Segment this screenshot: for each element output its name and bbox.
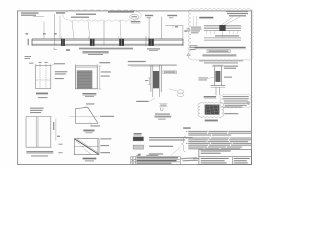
right dim w rotated text bbox=[55, 119, 57, 141]
legend swatch 1 dark bbox=[133, 137, 143, 141]
post cap lines bbox=[213, 64, 224, 66]
right dim line bbox=[99, 66, 101, 89]
detail label bbox=[36, 93, 48, 94]
right cloud outline bbox=[220, 94, 252, 108]
text left of title block bbox=[193, 158, 199, 159]
midline bbox=[74, 145, 99, 147]
hatch ticks below band bbox=[206, 31, 238, 34]
diagonal brace dark bbox=[74, 139, 98, 155]
mid text row bbox=[215, 35, 239, 36]
section 1A label bbox=[204, 96, 216, 97]
lintel det label bbox=[199, 17, 213, 18]
leader texts right bbox=[100, 138, 111, 139]
sheet background bbox=[0, 0, 256, 168]
dark bearing block 1 bbox=[61, 39, 65, 46]
notes heading bbox=[183, 127, 190, 128]
outline bbox=[76, 66, 98, 89]
dim text under beam right bbox=[147, 48, 160, 49]
label below bbox=[83, 158, 97, 159]
dark bearing block 3 bbox=[119, 39, 124, 46]
right cloud text rows bbox=[223, 96, 249, 106]
elevation text +125.7 with leader bbox=[44, 12, 65, 39]
gray louver fill bbox=[77, 70, 93, 88]
weld symbol ellipses bbox=[177, 90, 184, 93]
trapezoid outline bbox=[76, 107, 99, 123]
long underlined title bbox=[195, 47, 246, 48]
leaders from notes to lintel band bbox=[221, 17, 233, 26]
centerline bbox=[69, 116, 99, 118]
beam end caps bbox=[31, 39, 33, 46]
boxed text bbox=[207, 50, 230, 53]
rotated elevation text left of beam bbox=[28, 39, 29, 46]
dim tick text bbox=[224, 77, 232, 78]
dark bearing block 2 bbox=[90, 39, 95, 46]
125.75 label with leader bbox=[145, 15, 153, 16]
triangle A mark bbox=[187, 53, 190, 56]
centered underlined text bbox=[202, 55, 236, 56]
elevation outline bbox=[26, 116, 52, 118]
top-left note text block bbox=[21, 12, 44, 16]
+5 text at beam right end bbox=[184, 30, 187, 32]
legend swatch 2 light bbox=[133, 145, 143, 149]
+127.05 label bbox=[167, 15, 177, 16]
dashed internals bbox=[36, 66, 51, 89]
+2 typ leader text bbox=[86, 103, 94, 104]
note item numbers bbox=[186, 131, 187, 144]
leader and right texts bbox=[51, 64, 54, 65]
left post leader text bbox=[199, 77, 209, 78]
+5'-0" text bbox=[99, 62, 110, 63]
right elevation text rows bbox=[187, 28, 198, 50]
anchor hook bbox=[160, 107, 163, 110]
beam main horizontal lines bbox=[32, 39, 183, 44]
top-right notes (3 rows) bbox=[226, 11, 248, 17]
+119.0 label bbox=[131, 21, 141, 22]
notes rows bbox=[188, 131, 251, 149]
below-beam small bracket tick bbox=[54, 48, 57, 50]
dark bearing block 4 bbox=[149, 39, 154, 46]
post verticals bbox=[213, 67, 215, 86]
small mark near right border bbox=[247, 102, 250, 103]
small text above bbox=[38, 97, 48, 98]
hatched footing blob bbox=[198, 102, 224, 117]
left text block of lintel det bbox=[191, 27, 202, 34]
sheet border frame bbox=[18, 11, 252, 165]
anch bolt det boxed text bbox=[163, 71, 177, 74]
post dark core bbox=[215, 71, 220, 82]
pier dark core bbox=[153, 71, 159, 88]
text block bbox=[30, 108, 43, 109]
big revision cloud around lintel block bbox=[188, 9, 253, 60]
square detail outline bbox=[36, 66, 51, 89]
+6 text below beam bbox=[66, 49, 70, 51]
dark bearing segment in band bbox=[219, 25, 225, 31]
sec 2-1A label bbox=[205, 120, 218, 121]
rect outline bbox=[74, 139, 99, 155]
finish grade text bbox=[128, 61, 146, 62]
tiny text above detail bbox=[29, 63, 33, 64]
small dim with rules bbox=[159, 103, 167, 105]
lb anchor text + leader bbox=[136, 101, 148, 102]
hatched dark block bbox=[205, 105, 220, 115]
right edge double bbox=[97, 139, 99, 155]
left tiny texts bbox=[59, 144, 63, 145]
pier verticals bbox=[150, 65, 152, 92]
grade line bbox=[128, 64, 177, 66]
revision cloud with spandrel note bbox=[63, 10, 141, 21]
verticals crossing beam bbox=[54, 39, 56, 46]
footing leader texts bbox=[224, 107, 242, 108]
label below bbox=[26, 151, 53, 152]
lintel band lines bbox=[204, 25, 241, 30]
grid tick marks above beam bbox=[26, 33, 57, 35]
left dim ticks bbox=[148, 78, 150, 85]
post leader text bbox=[224, 66, 238, 67]
lower band bbox=[204, 38, 241, 41]
header row above table bbox=[137, 155, 141, 156]
anchor bolt labels bbox=[155, 114, 170, 115]
corner ticks bbox=[35, 64, 37, 66]
leaders from cloud to beam bbox=[72, 21, 74, 39]
base lines bbox=[211, 84, 226, 86]
flag note bubble bbox=[130, 14, 139, 19]
right side dim line with ticks bbox=[195, 16, 197, 26]
handwritten mark note bbox=[181, 157, 197, 161]
label between details bbox=[83, 130, 94, 131]
long dim text under beam bbox=[79, 48, 133, 49]
label below bbox=[82, 93, 96, 94]
curly brace leader bbox=[182, 136, 186, 152]
bottom leader text bbox=[90, 125, 100, 126]
label above bbox=[82, 51, 108, 52]
legend row 3 symbol bbox=[138, 154, 141, 156]
note rows below cloud bbox=[199, 60, 243, 63]
bent leader to beam end bbox=[166, 25, 183, 39]
tiny text left margin bbox=[25, 56, 32, 57]
